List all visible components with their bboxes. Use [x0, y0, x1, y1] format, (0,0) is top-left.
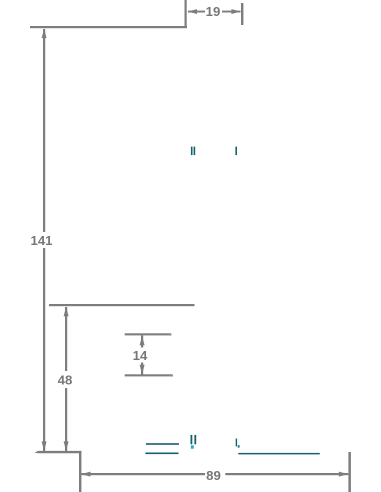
glass seal bottom left dot [191, 445, 194, 448]
dim 14 vertical line upper part [141, 336, 143, 348]
dim 89 left arrowhead [81, 472, 91, 477]
dim 89 right arrowhead [339, 472, 349, 477]
dim 141 vertical line upper part [43, 29, 45, 232]
dim 14 top extension line [125, 333, 172, 335]
dim 14 vertical line lower part [141, 363, 143, 375]
rail top extension line [49, 304, 195, 306]
seal horizontal line lower left [145, 453, 178, 455]
svg-text:14: 14 [133, 348, 148, 363]
glass seal bottom right dot [238, 445, 240, 448]
dim 14 bottom extension line [125, 374, 173, 376]
dim 141 bottom arrowhead [42, 441, 47, 451]
svg-text:48: 48 [58, 373, 73, 388]
glass seal upper left double tick [191, 147, 193, 156]
dim 48 top arrowhead [64, 307, 69, 317]
dim 19 left segment [188, 11, 205, 13]
dim 141 vertical line lower part [43, 248, 45, 451]
dim 14 bottom arrowhead [140, 365, 145, 375]
dim 48 vertical line upper part [65, 307, 67, 371]
dim 141 top arrowhead [42, 29, 47, 38]
floor step horizontal line [35, 451, 82, 453]
dim 19 right arrowhead [231, 9, 241, 14]
glass seal bottom left double tick [191, 435, 193, 444]
dim 48 vertical line lower part [65, 388, 67, 451]
dim 19 right extension line [241, 3, 243, 25]
dim 89 line left segment [82, 473, 206, 475]
dim 89 line right segment [225, 473, 348, 475]
wall upstand right edge vertical [185, 0, 187, 28]
svg-text:19: 19 [206, 4, 221, 19]
wall top edge line [30, 26, 187, 28]
seal horizontal line lower right [238, 453, 319, 455]
dim 19 right segment [222, 11, 241, 13]
seal horizontal line upper [146, 443, 179, 445]
svg-text:141: 141 [30, 233, 52, 248]
svg-text:89: 89 [206, 468, 221, 483]
glass seal bottom right tick [236, 439, 237, 447]
dim 48 bottom arrowhead [64, 441, 69, 451]
tray front edge vertical line [79, 453, 81, 492]
dim 14 top arrowhead [140, 336, 145, 346]
dim 89 right extension line [348, 452, 351, 492]
glass seal upper right tick [235, 147, 237, 156]
dim 19 left arrowhead [188, 9, 198, 14]
